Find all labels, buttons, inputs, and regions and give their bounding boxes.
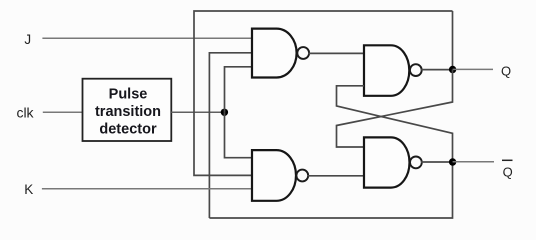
wire cross-coupling Q to U4 input (down, diagonal, down, right) <box>337 70 453 148</box>
bubble U2 output <box>410 64 422 76</box>
wire J input <box>42 37 252 39</box>
wire clk branch to upper gate (up then right) <box>225 67 253 113</box>
bubble U1 output <box>297 47 309 59</box>
svg-text:clk: clk <box>16 105 34 121</box>
node Qbar label <box>502 160 513 179</box>
svg-text:Q: Q <box>503 164 513 179</box>
wire cross-coupling Qbar to U2 input (up, diagonal, up, right) <box>337 86 453 162</box>
svg-text:J: J <box>24 32 31 47</box>
nand gate U4 (bottom-right, 2-input) <box>364 137 410 187</box>
svg-text:transition: transition <box>95 104 161 120</box>
nand gate U3 (bottom-left, 3-input) <box>252 150 296 201</box>
wire U4 output to Qbar junction <box>421 161 453 163</box>
svg-text:Q: Q <box>501 63 511 78</box>
wire Q feedback right vertical (top edge to Q dot) <box>452 11 454 70</box>
svg-text:detector: detector <box>99 122 157 138</box>
wire Q output <box>453 68 493 70</box>
wire U2 output to Q junction <box>421 69 453 71</box>
wire Q feedback: top edge y=11 down left side x=194 then right into lower gate middle input <box>194 11 453 175</box>
bubble U4 output <box>410 157 422 169</box>
wire K input <box>42 188 252 190</box>
bubble U3 output <box>296 170 308 182</box>
junction Qbar node dot <box>449 158 456 165</box>
wire U1 output to U2 input <box>308 52 364 54</box>
svg-text:Pulse: Pulse <box>109 87 148 103</box>
junction Q node dot <box>449 66 456 73</box>
wire U3 output to U4 input <box>308 175 365 177</box>
wire Qbar output <box>453 161 494 163</box>
junction clk node dot <box>221 109 228 116</box>
svg-text:K: K <box>24 182 33 197</box>
pulse transition detector box <box>83 79 172 141</box>
wire pulse detector output to clk junction <box>171 111 224 113</box>
wire clk to pulse detector <box>43 111 83 113</box>
wire Qbar feedback bottom edge (Qbar dot down to y=218 and left) <box>209 162 452 218</box>
wire clk branch to lower gate (down then right) <box>225 112 253 157</box>
wire Qbar feedback: up left side x=209.4 then right into upper gate middle input <box>209 53 252 218</box>
nand gate U2 (top-right, 2-input) <box>364 45 409 96</box>
nand gate U1 (top-left, 3-input) <box>252 29 297 78</box>
